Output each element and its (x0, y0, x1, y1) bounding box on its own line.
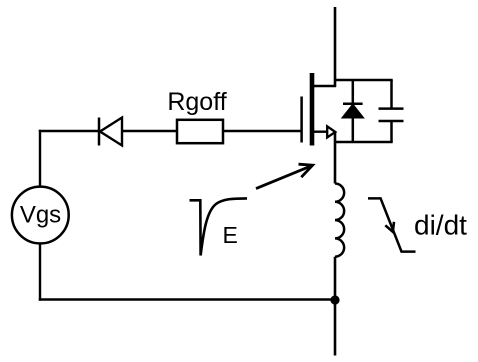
body diode branch wire upper (352, 80, 355, 104)
junction dot node (330, 295, 339, 304)
mosfet Q1 channel bar (310, 73, 315, 146)
capacitor bottom plate (379, 120, 404, 123)
body diode cathode bar (343, 102, 363, 105)
svg-text:E: E (223, 222, 238, 248)
mosfet Q1 gate bar (300, 97, 303, 143)
wire bottom horizontal (39, 298, 335, 300)
wire resistor to gate (223, 130, 301, 132)
body diode branch wire lower (352, 117, 355, 142)
capacitor branch wire lower (390, 121, 393, 142)
wire diode to resistor (122, 130, 177, 132)
wire left vertical lower (39, 243, 41, 300)
E spike waveform (190, 198, 248, 255)
annotation arrow shaft (256, 166, 311, 188)
diode D1 cathode bar (98, 118, 101, 146)
wire top-left horizontal (Vgs to diode) (39, 130, 98, 132)
svg-text:Vgs: Vgs (20, 201, 61, 228)
wire body-diode loop top (335, 79, 393, 82)
svg-text:Rgoff: Rgoff (167, 88, 226, 116)
mosfet Q1 source arrowhead (327, 126, 335, 137)
capacitor branch wire upper (390, 80, 393, 108)
diode D1 triangle (100, 118, 122, 146)
resistor Rgoff body (177, 120, 223, 143)
wire left vertical upper (39, 130, 41, 187)
mosfet Q1 drain lead (312, 85, 336, 87)
wire source vertical to inductor (334, 132, 337, 184)
wire inductor to junction (334, 257, 337, 300)
wire drain vertical to top (334, 7, 337, 87)
source Vgs circle (12, 187, 69, 244)
annotation arrow head (299, 164, 313, 177)
wire body-diode loop bottom (335, 141, 393, 144)
body diode triangle (342, 105, 363, 118)
svg-text:di/dt: di/dt (414, 210, 467, 241)
di/dt waveform (368, 198, 416, 251)
capacitor top plate (379, 107, 404, 110)
wire junction down to bottom (334, 300, 337, 356)
mosfet Q1 source lead (312, 130, 327, 132)
inductor L1 (335, 184, 344, 257)
di/dt arrowhead (385, 222, 394, 232)
